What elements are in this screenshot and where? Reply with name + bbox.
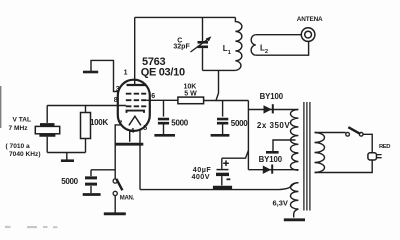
svg-text:L2: L2 xyxy=(260,43,268,55)
inductor L2 xyxy=(251,35,256,56)
capacitor C2 5000 plates xyxy=(217,119,228,123)
ground bias bar xyxy=(83,71,98,74)
wire upper diode branch xyxy=(248,109,298,111)
plug RED body xyxy=(368,153,377,160)
wire lower diode branch xyxy=(248,169,298,171)
svg-text:V TAL: V TAL xyxy=(13,116,32,123)
wire tank to B+ junction xyxy=(216,70,219,100)
ground C1 bar xyxy=(154,134,175,137)
capacitor C3 5000 stem xyxy=(90,170,92,176)
switch S1 ground stub xyxy=(114,196,116,213)
crystal X1 body xyxy=(35,126,59,133)
wire pin 5 to heater bus xyxy=(139,130,141,190)
switch S1 MAN blade xyxy=(116,179,122,190)
antenna connector inner xyxy=(305,31,312,38)
tube V1 envelope xyxy=(118,80,150,131)
resistor R1 top lead xyxy=(85,105,87,112)
capacitor C 32pF arrow xyxy=(191,38,210,52)
antenna connector outer xyxy=(301,28,315,42)
svg-text:5000: 5000 xyxy=(61,177,78,186)
capacitor C4 top stem xyxy=(221,158,223,169)
capacitor C3 lower stem xyxy=(90,186,92,193)
wire switch to plug xyxy=(363,134,372,152)
capacitor C4 plus sign xyxy=(223,160,229,166)
capacitor C 32pF plates xyxy=(198,42,209,47)
scan artifact bottom smudges xyxy=(5,226,58,228)
transformer T1 6.3V bottom lead xyxy=(294,209,299,217)
wire primary top to switch xyxy=(315,132,346,134)
ground switch bar xyxy=(104,212,126,215)
wire B+ vertical xyxy=(247,101,249,170)
wire heater bus to 6.3V winding xyxy=(140,183,298,190)
capacitor C4 top plate xyxy=(217,169,229,171)
svg-text:( 7010 a: ( 7010 a xyxy=(6,143,31,150)
wire L2 bottom to antenna xyxy=(256,41,309,55)
switch S1 MAN top contact xyxy=(113,179,117,183)
tube V1 grid row 2 xyxy=(126,99,146,101)
plug RED prongs xyxy=(377,155,382,158)
svg-text:100K: 100K xyxy=(90,118,108,127)
crystal X1 bottom plate xyxy=(39,134,55,137)
diode D2 BY100 triangle xyxy=(263,166,271,174)
tube V1 heater xyxy=(129,116,141,125)
tube V1 grid row 3 xyxy=(126,105,146,107)
svg-text:ANTENA: ANTENA xyxy=(297,16,323,23)
wire L2 top to antenna xyxy=(256,34,301,36)
capacitor C1 5000 stem xyxy=(163,101,165,117)
svg-text:4: 4 xyxy=(130,128,134,135)
transformer T1 HV winding xyxy=(291,110,299,171)
svg-text:32pF: 32pF xyxy=(173,44,190,51)
svg-text:5 W: 5 W xyxy=(184,90,197,97)
capacitor C3 5000 plates xyxy=(85,178,97,184)
svg-text:7040 KHz): 7040 KHz) xyxy=(9,151,41,158)
wire resistor to B+ corner xyxy=(204,100,249,102)
svg-text:400V: 400V xyxy=(192,172,210,181)
ground crystal stub xyxy=(66,153,68,160)
wire pin1 anode lead xyxy=(134,17,136,85)
wire pin 6 to resistor xyxy=(146,99,178,101)
capacitor C4 bottom stem xyxy=(221,176,223,185)
tube V1 anode plate xyxy=(127,84,147,86)
svg-text:6,3V: 6,3V xyxy=(273,198,288,207)
switch S2 blade xyxy=(348,127,360,134)
crystal X1 top plate xyxy=(40,123,55,126)
wire pin 7 to key switch xyxy=(115,125,121,179)
transformer T1 core xyxy=(304,102,310,211)
svg-text:BY100: BY100 xyxy=(259,155,283,164)
svg-text:7 MHz: 7 MHz xyxy=(9,125,29,132)
resistor R1 100K body xyxy=(81,113,91,139)
diode D1 BY100 bar xyxy=(272,104,274,113)
svg-text:5000: 5000 xyxy=(171,118,188,127)
wire cathode bypass branch xyxy=(91,169,115,171)
wire pin 4 lead xyxy=(129,130,131,141)
resistor R1 bottom lead xyxy=(85,139,87,153)
svg-text:7: 7 xyxy=(118,120,122,127)
transformer T1 center tap xyxy=(273,140,296,151)
capacitor C 32pF variable: top stem xyxy=(202,17,204,41)
svg-text:2x 350V: 2x 350V xyxy=(257,121,290,130)
diode D1 BY100 triangle xyxy=(264,105,272,113)
wire plug to primary bottom xyxy=(315,160,373,173)
ground center tap bar xyxy=(266,151,279,154)
ground C3 bar xyxy=(83,193,101,196)
capacitor C2 5000 lower stem xyxy=(222,125,224,135)
svg-text:6: 6 xyxy=(151,93,155,100)
capacitor C4 40uF top wire xyxy=(222,151,249,159)
svg-text:1: 1 xyxy=(124,70,128,77)
crystal X1 top lead xyxy=(46,105,48,123)
ground pin4 bar xyxy=(115,143,143,146)
svg-text:5000: 5000 xyxy=(231,119,248,128)
capacitor C1 5000 plates xyxy=(158,119,169,123)
capacitor C2 5000 stem xyxy=(222,101,224,117)
resistor R2 10K 5W body xyxy=(178,97,204,104)
tube V1 cathode xyxy=(127,111,145,113)
ground crystal bar xyxy=(61,159,74,162)
inductor L1 xyxy=(235,17,242,70)
crystal X1 bottom lead xyxy=(46,137,48,153)
svg-text:MAN.: MAN. xyxy=(120,196,135,202)
ground C2 bar xyxy=(211,134,230,137)
transformer T1 primary winding xyxy=(315,133,325,173)
transformer T1 6.3V winding xyxy=(291,183,299,209)
capacitor C 32pF bottom stem xyxy=(202,48,204,70)
svg-text:5: 5 xyxy=(143,125,147,132)
svg-text:RED: RED xyxy=(379,144,390,150)
svg-text:L1: L1 xyxy=(223,44,232,56)
svg-text:8: 8 xyxy=(114,97,118,104)
diode D2 BY100 bar xyxy=(271,165,273,174)
ground 6.3V bar xyxy=(284,218,305,221)
switch S2 left contact xyxy=(346,132,350,136)
svg-text:BY100: BY100 xyxy=(260,92,284,101)
switch S2 right contact xyxy=(359,132,363,136)
wire tank bottom xyxy=(203,69,236,71)
capacitor C1 5000 lower stem xyxy=(163,125,165,135)
capacitor C4 minus sign xyxy=(227,178,231,180)
wire pin 3 to bias ground xyxy=(91,60,118,91)
scan artifact left edge xyxy=(0,86,1,128)
ground C4 bar xyxy=(213,186,232,189)
tube V1 grid row 1 xyxy=(126,93,146,95)
switch S1 MAN bottom contact xyxy=(113,191,117,195)
capacitor C4 bottom plate xyxy=(216,173,229,176)
wire pin 8 to crystal xyxy=(47,105,126,107)
wire top B+ to tank xyxy=(135,16,236,18)
svg-text:QE 03/10: QE 03/10 xyxy=(141,66,185,78)
wire crystal bottom bus xyxy=(47,152,85,154)
